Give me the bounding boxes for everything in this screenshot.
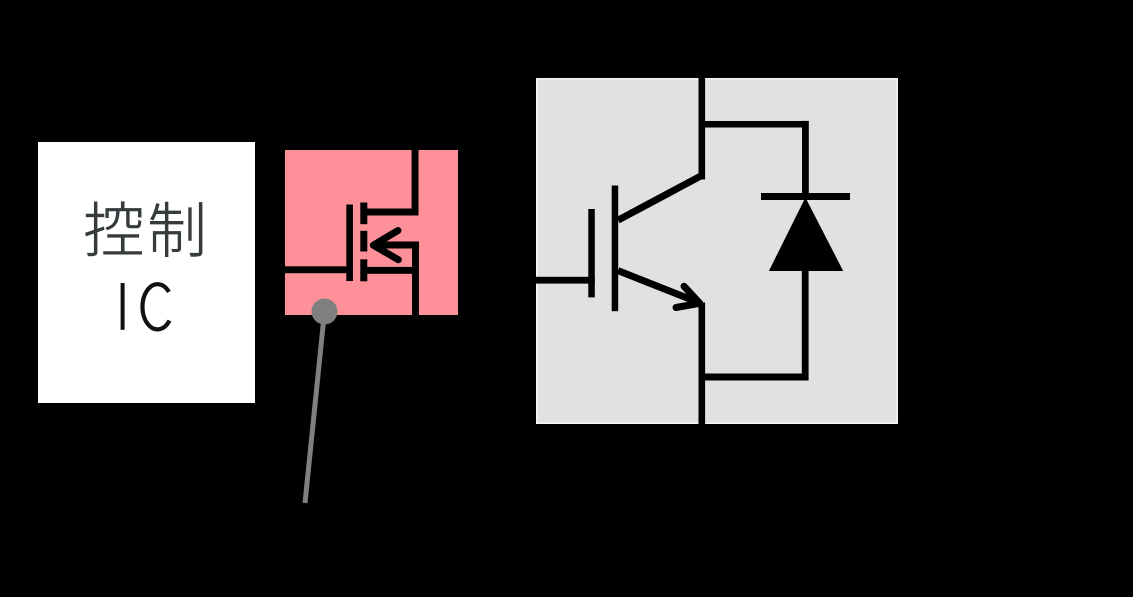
wire body/source vertical to module bottom <box>412 242 419 316</box>
label text I of IC <box>121 283 125 330</box>
MOSFET Q1 body arrow shaft <box>380 242 419 249</box>
callout line <box>305 312 325 504</box>
IGBT Q2 gate lead wire <box>536 277 595 284</box>
MOSFET Q1 source wire <box>363 267 419 274</box>
MOSFET Q1 channel dash top <box>360 203 367 225</box>
IGBT Q2 emitter slant <box>618 271 701 304</box>
label text C of IC <box>142 284 169 329</box>
label text 制 <box>150 202 202 257</box>
MOSFET Q1 channel dash middle <box>360 231 367 252</box>
IGBT Q2 gate bar <box>588 209 595 297</box>
MOSFET Q1 gate lead wire <box>283 266 349 273</box>
wire bottom horizontal to diode <box>699 374 809 381</box>
MOSFET Q1 body arrow head <box>373 231 398 260</box>
diode D1 anode lead <box>802 268 809 381</box>
IGBT module box (gray) <box>537 79 898 424</box>
MOSFET Q1 drain wire <box>363 209 419 216</box>
MOSFET Q1 gate electrode <box>346 205 353 282</box>
wire drain vertical to module top <box>412 150 419 216</box>
IGBT Q2 body bar <box>612 186 619 312</box>
wire emitter vertical to module bottom <box>699 303 706 425</box>
MOSFET module box (pink) <box>285 150 458 315</box>
wire collector vertical to module top <box>699 78 706 180</box>
IGBT Q2 emitter arrow head <box>676 286 700 307</box>
diode D1 triangle <box>769 198 843 272</box>
diode D1 cathode lead <box>802 121 809 197</box>
IGBT Q2 collector slant <box>618 175 702 220</box>
label text 控 <box>85 201 142 256</box>
wire top horizontal to diode <box>699 121 809 128</box>
control IC box U1 <box>38 142 255 403</box>
callout dot <box>312 299 338 325</box>
MOSFET Q1 channel dash bottom <box>360 259 367 281</box>
diode D1 cathode bar <box>761 193 850 200</box>
